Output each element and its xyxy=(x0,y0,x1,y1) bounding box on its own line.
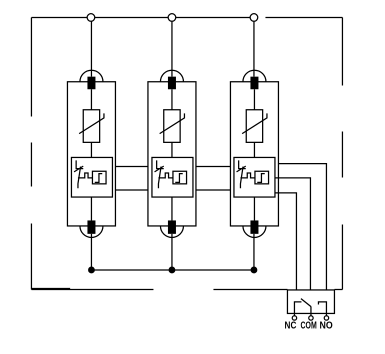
varistor MOV2 diagonal xyxy=(160,113,185,133)
disconnector 2 step symbol xyxy=(175,174,183,183)
junction dot 1 xyxy=(88,267,95,274)
module 2 plug-in base arc bottom xyxy=(160,226,183,238)
module 3 plug-in base arc bottom xyxy=(243,226,266,238)
relay NC fixed contact xyxy=(294,302,301,314)
module 2 enclosure box xyxy=(148,82,196,226)
module 1 plug-in base arc bottom xyxy=(80,226,103,238)
disconnector box 2 xyxy=(152,157,193,197)
terminal circle NC xyxy=(292,316,296,320)
node L2 terminal circle xyxy=(168,14,176,22)
disconnector 1 step symbol xyxy=(95,174,103,183)
disconnector box 3 xyxy=(234,157,275,197)
relay terminal stubs xyxy=(294,313,326,315)
varistor MOV1 body xyxy=(83,110,99,143)
disconnector 3 signal square xyxy=(255,171,269,184)
module 3 enclosure box xyxy=(230,82,278,226)
PE bus line xyxy=(91,269,254,271)
enclosure dashed border: bottom xyxy=(31,288,342,290)
module 1 enclosure box xyxy=(67,82,115,226)
enclosure dashed border: left side xyxy=(30,17,32,289)
module 1 plug-in base arc top xyxy=(80,70,103,82)
module 2 bottom plug contact xyxy=(168,220,176,233)
wire L3 drop xyxy=(253,21,255,76)
svg-text:COM: COM xyxy=(301,320,317,331)
wire FM B (disconnector to relay) xyxy=(275,178,311,290)
disconnector box 1 xyxy=(71,157,112,197)
relay NO fixed contact xyxy=(318,302,326,314)
wire disconnector to bottom contact xyxy=(171,197,173,220)
relay switch blade xyxy=(301,299,311,307)
enclosure dashed border: right side xyxy=(341,17,343,289)
wire varistor to disconnector xyxy=(253,142,255,157)
terminal circle COM xyxy=(309,316,313,320)
monitoring bus between module 2 and 3 xyxy=(196,166,231,190)
disconnector 3 symbol xyxy=(237,160,256,188)
module 3 top plug contact xyxy=(250,77,258,90)
module 1 bottom plug contact xyxy=(87,220,95,233)
module 2 top plug contact xyxy=(168,77,176,90)
wire contact to varistor xyxy=(171,89,173,110)
wire module 1 to PE bus xyxy=(90,234,92,267)
wire disconnector to bottom contact xyxy=(90,197,92,220)
enclosure border: bottom-left heavy dash xyxy=(31,288,70,290)
module 3 plug-in base arc top xyxy=(243,70,266,82)
wire FM A (module box to relay) xyxy=(278,164,326,290)
relay COM lead xyxy=(310,307,312,314)
svg-text:NC: NC xyxy=(285,320,297,331)
wire module 3 to PE bus xyxy=(253,234,255,267)
wire disconnector to bottom contact xyxy=(253,197,255,220)
node L3 terminal circle xyxy=(250,14,258,22)
node L1 terminal circle xyxy=(87,14,95,22)
varistor MOV1 diagonal xyxy=(79,113,104,133)
monitoring bus between module 1 and 2 xyxy=(115,166,148,190)
junction dot 3 xyxy=(251,267,258,274)
disconnector 2 signal square xyxy=(173,171,187,184)
enclosure dashed border: top bus line xyxy=(31,16,342,18)
relay FM contact box xyxy=(287,290,334,314)
wire FM C (disconnector to relay) xyxy=(275,193,297,290)
varistor MOV2 body xyxy=(164,110,180,143)
wire L1 drop xyxy=(90,21,92,76)
wire module 2 to PE bus xyxy=(171,234,173,267)
disconnector 3 step symbol xyxy=(257,174,265,183)
module 3 bottom plug contact xyxy=(250,220,258,233)
wire L2 drop xyxy=(171,21,173,76)
wire varistor to disconnector xyxy=(171,142,173,157)
disconnector 1 signal square xyxy=(92,171,106,184)
disconnector 1 symbol xyxy=(74,160,93,188)
wire contact to varistor xyxy=(90,89,92,110)
varistor MOV3 body xyxy=(246,110,262,143)
module 2 plug-in base arc top xyxy=(160,70,183,82)
wire contact to varistor xyxy=(253,89,255,110)
svg-text:NO: NO xyxy=(320,320,333,331)
varistor MOV3 diagonal xyxy=(242,113,267,133)
module 1 top plug contact xyxy=(87,77,95,90)
disconnector 2 symbol xyxy=(155,160,174,188)
junction dot 2 xyxy=(169,267,176,274)
terminal circle NO xyxy=(324,316,328,320)
wire varistor to disconnector xyxy=(90,142,92,157)
